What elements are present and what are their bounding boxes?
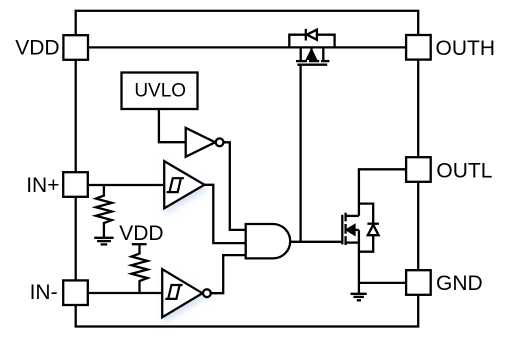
Q2 body arrow (353, 229, 359, 231)
pin IN+ (63, 172, 88, 197)
svg-text:UVLO: UVLO (134, 80, 186, 101)
Q2 drain lead (346, 215, 359, 217)
buffer U4 (IN- Schmitt trigger, inverting) (162, 269, 202, 317)
transistor Q1 (high-side PMOS) (289, 29, 334, 242)
svg-text:OUTH: OUTH (436, 37, 496, 60)
Q1 drain contact (322, 47, 324, 60)
wire IN- to buffer (88, 292, 162, 294)
resistor R1 (IN+ pulldown) (96, 185, 112, 238)
wire UVLO to inverter (159, 109, 186, 142)
hysteresis glyph U3 (167, 178, 184, 192)
ground (Q2 source) (351, 283, 367, 300)
svg-text:IN-: IN- (30, 281, 58, 304)
wire VDD to PMOS source rail (88, 46, 406, 48)
wire buffer U3 out to AND input B (205, 185, 246, 243)
Q1 body arrow (310, 47, 312, 52)
IC outline (76, 11, 419, 327)
wire body-diode bypass (289, 35, 334, 48)
pin VDD (63, 35, 88, 60)
svg-text:IN+: IN+ (26, 174, 59, 197)
ground (R1) (94, 238, 113, 245)
wire buffer U4 out to AND input C (211, 255, 246, 293)
Q2 source lead (346, 241, 359, 243)
diode D1 (Q1 body diode) (305, 29, 307, 41)
svg-text:VDD: VDD (15, 36, 59, 59)
pin GND (406, 270, 431, 295)
svg-text:VDD: VDD (119, 222, 163, 245)
pin IN- (63, 280, 88, 305)
transistor Q2 (low-side NMOS) (342, 204, 379, 284)
Q2 gate bar (341, 215, 343, 245)
wire Q1 gate lead (299, 65, 301, 242)
hysteresis glyph U4 (165, 285, 182, 299)
pin OUTL (406, 157, 431, 182)
UVLO block (122, 73, 198, 110)
buffer U3 (IN+ Schmitt trigger) (164, 161, 204, 208)
Q2 channel segments (344, 213, 346, 222)
pin OUTH (406, 35, 431, 60)
diode D2 (Q2 body diode) (367, 223, 379, 225)
wire AND out to gate leads (290, 241, 343, 243)
resistor R2 (IN- pullup to VDD) (132, 244, 148, 293)
wire body-diode branch (359, 204, 373, 252)
wire IN+ to buffer (88, 184, 164, 186)
inverter U2 (186, 128, 216, 157)
svg-text:GND: GND (436, 272, 483, 295)
Q1 source contact (300, 47, 302, 60)
VDD tap bar (132, 243, 147, 245)
wire inverter out to AND input A (224, 142, 246, 230)
svg-text:OUTL: OUTL (436, 160, 492, 183)
wire source to GND pin (359, 282, 406, 284)
wire OUTL to Q2 drain (359, 169, 406, 216)
AND gate U5 (246, 224, 291, 258)
Q1 gate bar (297, 64, 327, 66)
Q1 channel segments (296, 60, 307, 62)
wire Q2 source down (358, 230, 360, 283)
